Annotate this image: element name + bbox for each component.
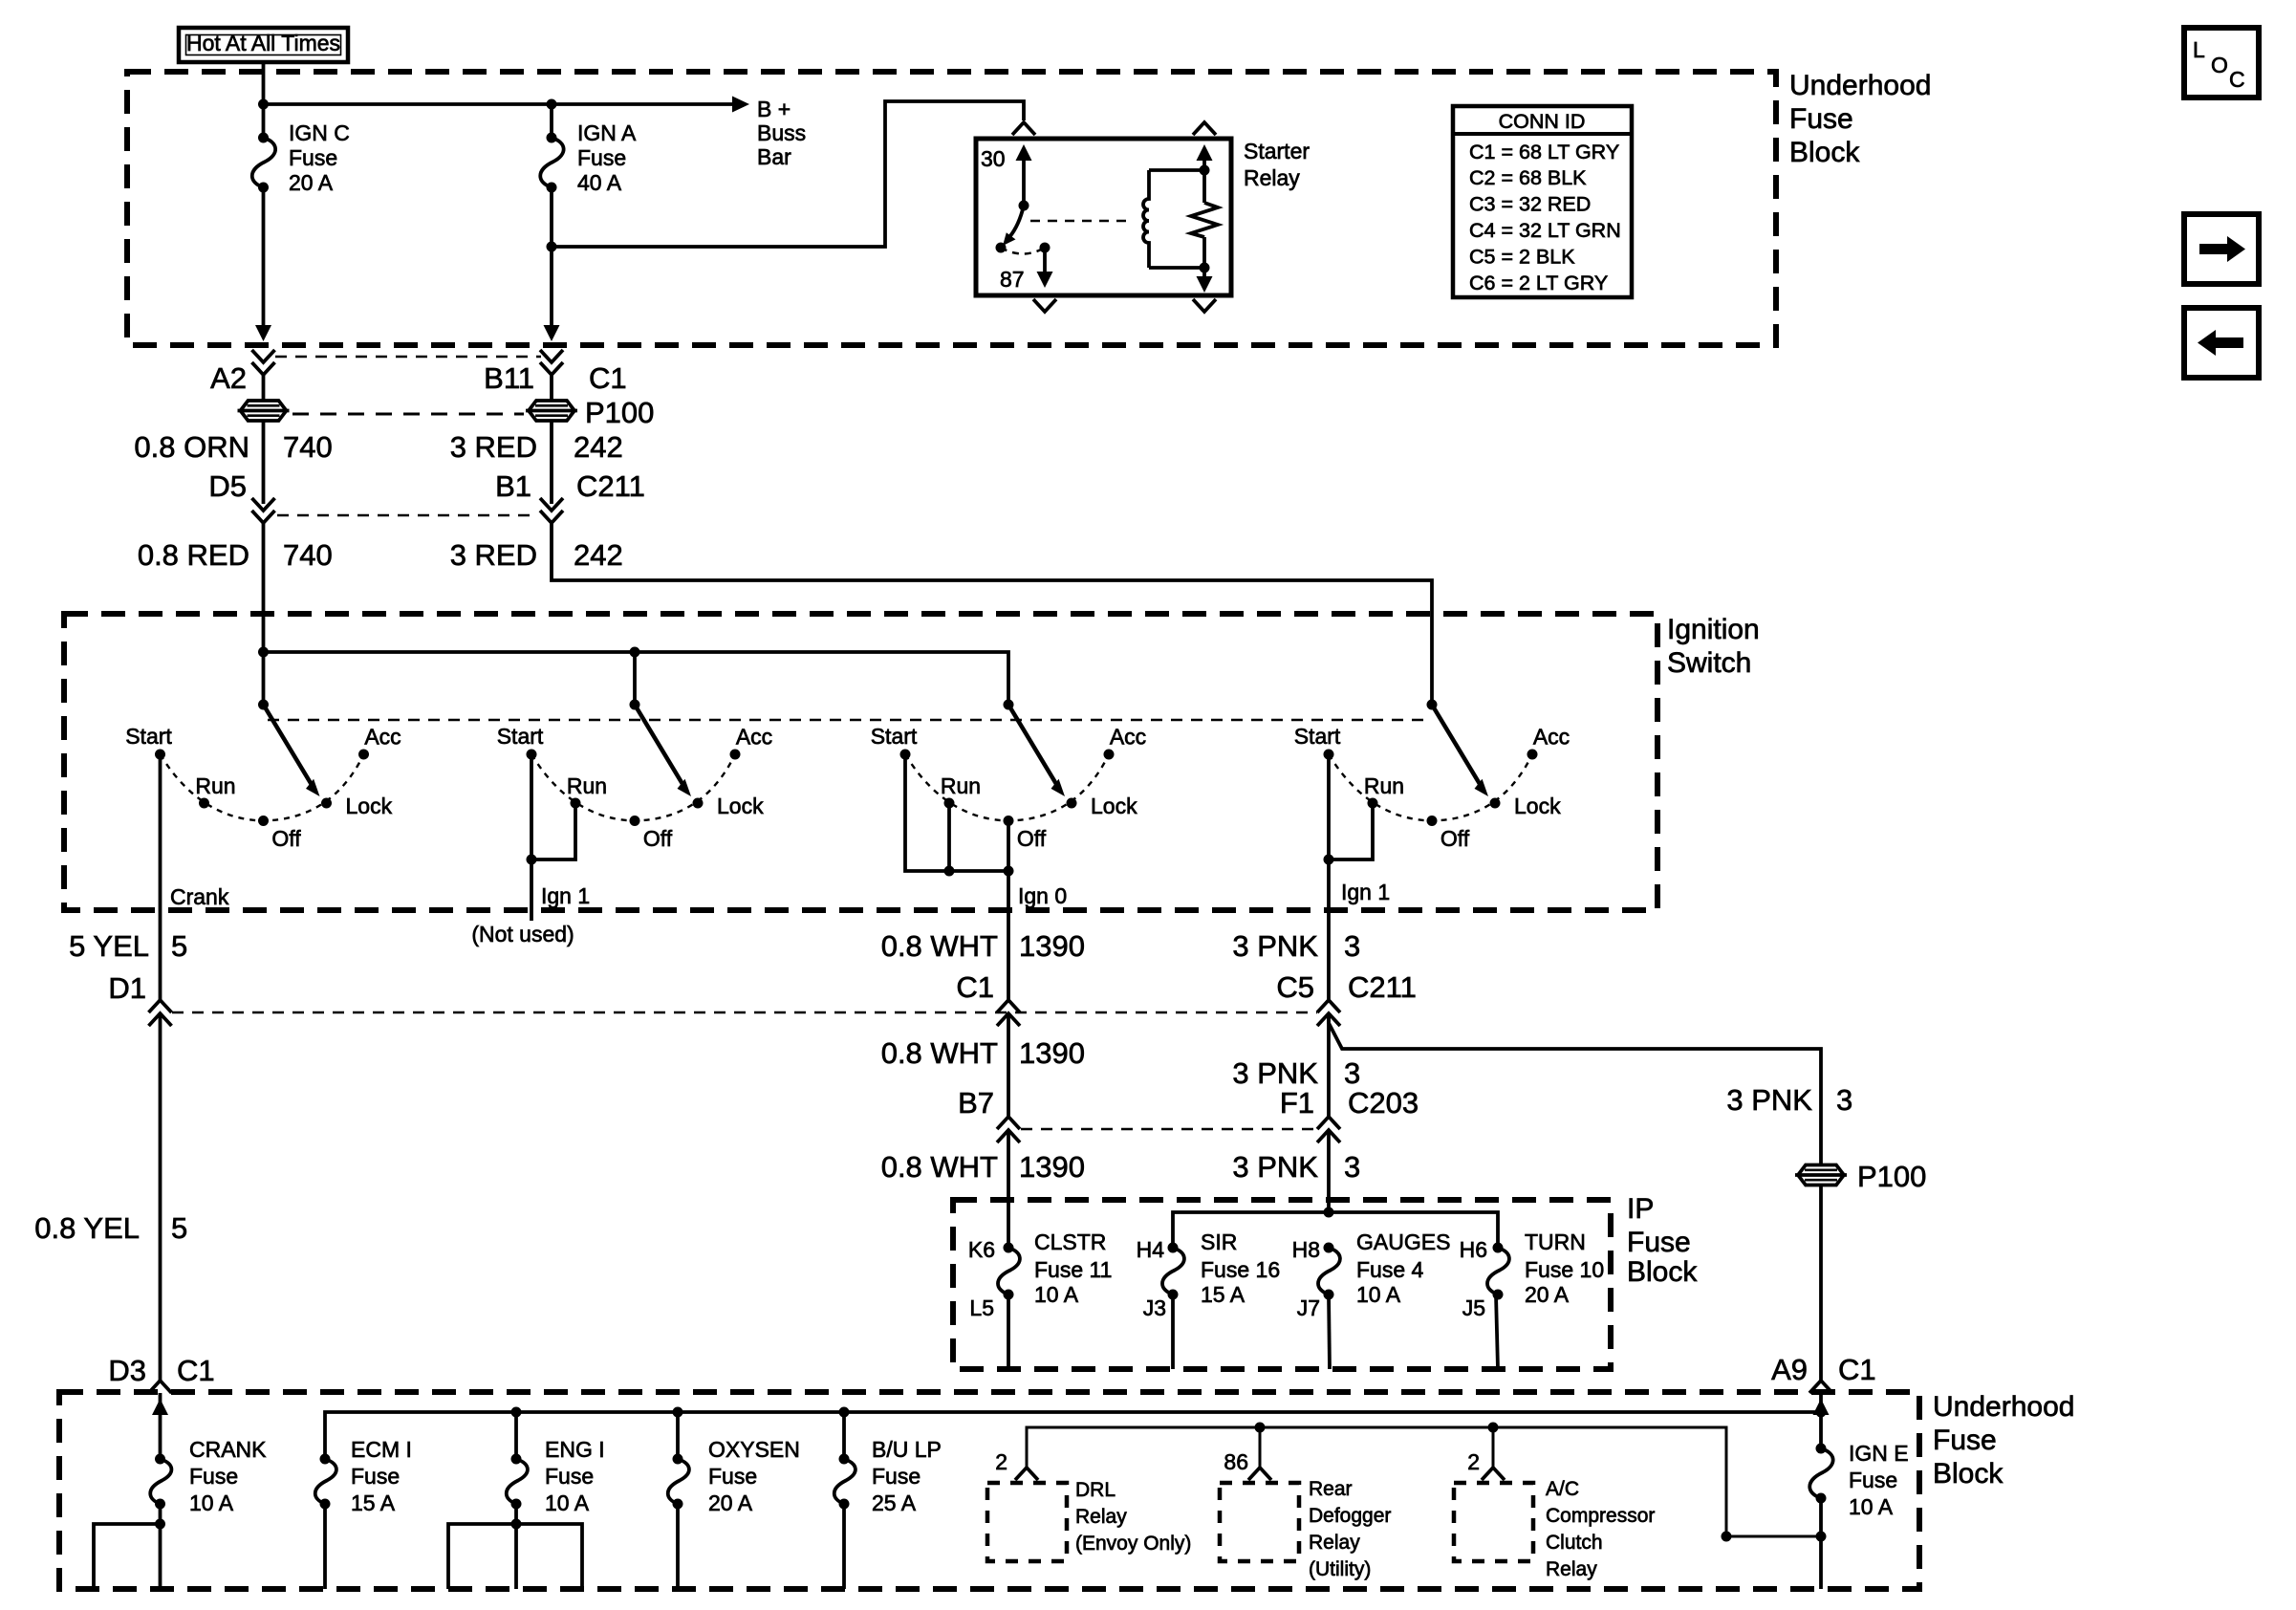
- svg-text:10 A: 10 A: [1849, 1494, 1894, 1519]
- ignition switch wafer 3 (Ign 0): [871, 700, 1146, 852]
- svg-text:Compressor: Compressor: [1546, 1505, 1655, 1527]
- svg-text:J3: J3: [1143, 1295, 1166, 1320]
- svg-text:Ignition: Ignition: [1667, 614, 1760, 645]
- label: TURN Fuse 10 20 A: [1525, 1229, 1604, 1307]
- svg-text:25 A: 25 A: [872, 1490, 917, 1515]
- svg-text:C1: C1: [177, 1354, 215, 1387]
- svg-text:3 PNK: 3 PNK: [1726, 1083, 1812, 1117]
- wire: B11 lead into connector: [550, 375, 553, 401]
- wire: B+ buss bar feed: [264, 102, 733, 106]
- connector alignment dashed line C211: [277, 514, 537, 517]
- wire: switch supply bus: [264, 652, 1009, 705]
- svg-text:Ign 0: Ign 0: [1018, 883, 1067, 908]
- wire: IGN C fuse output to connector A2: [262, 187, 266, 329]
- pin chevron A/C relay pin 2: [1482, 1468, 1505, 1480]
- fuse TURN Fuse 10 20 A: [1487, 1243, 1509, 1370]
- label: 0.8 ORN 740: [134, 430, 332, 464]
- svg-text:Underhood: Underhood: [1933, 1391, 2074, 1423]
- svg-text:3: 3: [1344, 1056, 1360, 1090]
- wire: Hot At All Times feed down to IGN C fuse: [262, 62, 266, 138]
- wire: switch 2 Start-Run tie: [527, 754, 576, 921]
- IP Fuse Block boundary: [953, 1200, 1611, 1369]
- pin chevron above starter relay pin 30: [1012, 122, 1035, 135]
- Ignition Switch boundary: [64, 614, 1657, 910]
- svg-text:(Utility): (Utility): [1309, 1558, 1371, 1580]
- svg-text:5: 5: [171, 1211, 187, 1245]
- svg-text:Fuse 10: Fuse 10: [1525, 1257, 1604, 1282]
- svg-text:C1 = 68 LT GRY: C1 = 68 LT GRY: [1469, 141, 1619, 163]
- svg-text:OXYSEN: OXYSEN: [708, 1437, 800, 1462]
- svg-text:C203: C203: [1348, 1086, 1419, 1120]
- connector alignment dashed line (A2/B11 row): [275, 356, 541, 359]
- svg-text:0.8 RED: 0.8 RED: [138, 538, 249, 572]
- svg-text:Relay: Relay: [1309, 1532, 1360, 1554]
- pin chevron below relay pin 87: [1033, 299, 1056, 312]
- label: Rear Defogger Relay (Utility): [1309, 1478, 1391, 1580]
- label: OXYSEN Fuse 20 A: [708, 1437, 800, 1515]
- svg-text:87: 87: [1000, 267, 1025, 292]
- connector alignment dashed line C203: [1021, 1128, 1317, 1131]
- ignition switch wafer 2 (Ign 1): [497, 700, 772, 852]
- label: 0.8 RED 740: [138, 538, 333, 572]
- wire: coil top to resistor column: [1149, 168, 1204, 172]
- fuse IGN C 20 A: [252, 133, 275, 193]
- svg-text:Starter: Starter: [1244, 139, 1310, 163]
- svg-text:Buss: Buss: [757, 120, 806, 145]
- svg-text:10 A: 10 A: [1034, 1282, 1079, 1307]
- wire: IGN A fuse output down to connector B11: [550, 187, 553, 329]
- svg-text:3 RED: 3 RED: [450, 538, 537, 572]
- svg-text:C6 = 2 LT GRY: C6 = 2 LT GRY: [1469, 272, 1608, 294]
- svg-text:ECM I: ECM I: [351, 1437, 412, 1462]
- node: junction IGN E supply: [1816, 1407, 1827, 1418]
- svg-text:2: 2: [1467, 1449, 1480, 1474]
- svg-text:IGN E: IGN E: [1849, 1441, 1909, 1466]
- svg-text:C5: C5: [1276, 970, 1314, 1004]
- svg-text:10 A: 10 A: [545, 1490, 590, 1515]
- pin chevron below relay coil pin: [1193, 299, 1216, 312]
- svg-text:Relay: Relay: [1075, 1506, 1127, 1528]
- Underhood Fuse Block (top) boundary: [127, 72, 1776, 345]
- svg-text:C3 = 32 RED: C3 = 32 RED: [1469, 193, 1591, 216]
- svg-text:15 A: 15 A: [351, 1490, 396, 1515]
- fuse SIR Fuse 16 15 A: [1162, 1243, 1184, 1370]
- node: junction 3 PNK on IP bus: [1324, 1207, 1334, 1218]
- svg-text:CRANK: CRANK: [189, 1437, 267, 1462]
- label: 0.8 WHT 1390 (row 2): [881, 1036, 1085, 1070]
- node: junction at B+ bus: [258, 99, 269, 110]
- svg-text:Fuse: Fuse: [872, 1464, 921, 1489]
- svg-text:B11: B11: [484, 361, 534, 395]
- wire: 0.8 WHT 1390 (row 2): [1007, 1013, 1010, 1117]
- svg-text:CLSTR: CLSTR: [1034, 1229, 1106, 1254]
- fuse IGN E 10 A: [1809, 1444, 1832, 1590]
- svg-text:ENG I: ENG I: [545, 1437, 605, 1462]
- svg-text:L: L: [2193, 37, 2205, 62]
- svg-text:10 A: 10 A: [189, 1490, 234, 1515]
- svg-text:1390: 1390: [1019, 929, 1085, 963]
- svg-text:C211: C211: [576, 469, 645, 503]
- starter relay U1 outline: [976, 139, 1231, 295]
- relay pin 87 contact: [1037, 243, 1053, 289]
- svg-text:H8: H8: [1292, 1237, 1320, 1262]
- wire: 3 RED 242 segment to switch 4: [552, 523, 1432, 705]
- label: 3 PNK 3 (row 2): [1232, 1056, 1360, 1090]
- node: junction rear defogger relay: [1255, 1423, 1266, 1433]
- connector chevrons C203 (B7): [997, 1117, 1020, 1142]
- DRL relay K1 outline: [987, 1483, 1067, 1561]
- connector P100 pass-through (B11/C1 side): [526, 401, 577, 421]
- pin chevron entering bottom fuse block (A9): [1809, 1381, 1832, 1393]
- svg-text:C2 = 68 BLK: C2 = 68 BLK: [1469, 166, 1587, 189]
- fuse OXYSEN 20 A: [668, 1412, 689, 1589]
- pin chevrons below fuse block exit B11: [540, 350, 563, 375]
- connector C211 chevrons (B1 side): [540, 498, 563, 523]
- svg-text:TURN: TURN: [1525, 1229, 1586, 1254]
- page icon: arrow left box: [2184, 308, 2259, 378]
- wire: 0.8 ORN 740 segment: [262, 421, 266, 504]
- wire: relay feed line from IGN E fuse: [1027, 1427, 1821, 1536]
- svg-text:Fuse: Fuse: [351, 1464, 400, 1489]
- svg-text:GAUGES: GAUGES: [1356, 1229, 1450, 1254]
- label: ENG I Fuse 10 A: [545, 1437, 605, 1515]
- relay actuation dashed link: [1030, 220, 1131, 223]
- svg-text:0.8 YEL: 0.8 YEL: [34, 1211, 140, 1245]
- wire: drop to A/C relay: [1492, 1427, 1495, 1468]
- label: GAUGES Fuse 4 10 A: [1356, 1229, 1450, 1307]
- svg-text:IGN C: IGN C: [289, 120, 350, 145]
- svg-text:Fuse: Fuse: [189, 1464, 238, 1489]
- wire: switch 4 Start-Run tie: [1324, 754, 1374, 1000]
- svg-text:H6: H6: [1460, 1237, 1487, 1262]
- label: Ignition Switch: [1667, 614, 1760, 679]
- connector C1 chevrons (D1): [149, 1000, 172, 1026]
- svg-text:D3: D3: [108, 1354, 146, 1387]
- svg-text:Fuse: Fuse: [1849, 1468, 1897, 1492]
- node: junction IGN A column on B+ bus: [547, 99, 557, 110]
- label: 5 YEL 5: [69, 929, 187, 963]
- svg-text:3 PNK: 3 PNK: [1232, 929, 1318, 963]
- pin chevron rear defogger pin 86: [1248, 1468, 1271, 1480]
- relay coil: [1143, 170, 1149, 268]
- svg-text:Fuse: Fuse: [1789, 103, 1853, 135]
- svg-text:D5: D5: [208, 469, 247, 503]
- pin chevron DRL relay pin 2: [1015, 1468, 1038, 1480]
- wire: branch to starter relay pin 30: [552, 101, 1024, 247]
- connector P100 pass-through (A2 side): [238, 401, 290, 421]
- svg-text:40 A: 40 A: [577, 170, 622, 195]
- label: 3 RED 242 (lower): [450, 538, 623, 572]
- svg-text:Block: Block: [1933, 1458, 2004, 1490]
- svg-text:0.8 WHT: 0.8 WHT: [881, 1150, 998, 1184]
- svg-text:3 PNK: 3 PNK: [1232, 1056, 1318, 1090]
- svg-text:Fuse: Fuse: [708, 1464, 757, 1489]
- wire: switch 3 Start-Run-Off tie: [905, 754, 1014, 1000]
- svg-text:C5 = 2 BLK: C5 = 2 BLK: [1469, 246, 1575, 269]
- svg-text:C211: C211: [1348, 970, 1417, 1004]
- relay switch blade 30 to 87: [996, 206, 1025, 253]
- svg-text:DRL: DRL: [1075, 1479, 1116, 1501]
- svg-text:L5: L5: [969, 1295, 994, 1320]
- wire: A2 lead into connector: [262, 375, 266, 401]
- wire: IGN A fuse feed: [550, 104, 553, 138]
- svg-text:20 A: 20 A: [1525, 1282, 1570, 1307]
- fuse CLSTR Fuse 11 10 A: [998, 1243, 1020, 1370]
- wire: CRANK fuse feed with direction arrow: [152, 1393, 168, 1459]
- svg-text:(Not used): (Not used): [471, 922, 574, 946]
- svg-text:Block: Block: [1627, 1256, 1698, 1288]
- svg-text:(Envoy Only): (Envoy Only): [1075, 1533, 1191, 1555]
- svg-text:5: 5: [171, 929, 187, 963]
- label: DRL Relay (Envoy Only): [1075, 1479, 1191, 1555]
- svg-text:0.8 WHT: 0.8 WHT: [881, 1036, 998, 1070]
- power tag: Hot At All Times: [179, 28, 348, 62]
- svg-text:3 RED: 3 RED: [450, 430, 537, 464]
- svg-text:20 A: 20 A: [289, 170, 334, 195]
- svg-text:3: 3: [1344, 1150, 1360, 1184]
- svg-text:30: 30: [981, 146, 1006, 171]
- label: ECM I Fuse 15 A: [351, 1437, 412, 1515]
- svg-text:B1: B1: [495, 469, 531, 503]
- wire: Crank output from Start contact: [159, 754, 162, 1000]
- wire: 0.8 YEL 5 long segment: [159, 1013, 162, 1381]
- fuse B/U LP 25 A: [834, 1412, 856, 1589]
- fuse ENG I 10 A: [448, 1412, 582, 1589]
- svg-text:Crank: Crank: [170, 884, 229, 909]
- wire: drop to switch 2 pivot: [633, 652, 637, 705]
- svg-text:K6: K6: [968, 1237, 995, 1262]
- svg-text:C4 = 32 LT GRN: C4 = 32 LT GRN: [1469, 219, 1621, 242]
- svg-text:F1: F1: [1280, 1086, 1314, 1120]
- label: CLSTR Fuse 11 10 A: [1034, 1229, 1112, 1307]
- ignition switch wafer 1 (Crank): [125, 700, 401, 852]
- wire: IGN E feed with direction arrow: [1813, 1393, 1830, 1449]
- svg-text:D1: D1: [108, 971, 146, 1005]
- label: CRANK Fuse 10 A: [189, 1437, 267, 1515]
- svg-text:P100: P100: [585, 396, 654, 429]
- svg-text:Switch: Switch: [1667, 647, 1751, 679]
- Rear Defogger relay K2 outline: [1220, 1483, 1299, 1561]
- svg-text:C1: C1: [589, 361, 627, 395]
- label: IGN A Fuse 40 A: [577, 120, 637, 195]
- relay contact travel dashed arc: [1001, 248, 1045, 254]
- page icon: arrow right box: [2184, 214, 2259, 284]
- label: IP Fuse Block: [1627, 1193, 1698, 1288]
- label: 3 RED 242: [450, 430, 623, 464]
- connector chevrons C211 (C5): [1317, 1000, 1340, 1026]
- wire: CRANK fuse output: [94, 1504, 165, 1589]
- relay pin 30 contact arm: [1016, 144, 1032, 211]
- svg-text:Block: Block: [1789, 137, 1860, 168]
- wire: 3 RED 242 segment: [550, 421, 553, 504]
- node: junction OXYSEN: [673, 1407, 683, 1418]
- pin chevron entering bottom fuse block (D3): [149, 1381, 172, 1393]
- svg-text:Fuse: Fuse: [289, 145, 337, 170]
- ganged switch dashed link line: [268, 719, 1427, 722]
- svg-text:B +: B +: [757, 97, 791, 121]
- svg-text:Fuse 11: Fuse 11: [1034, 1257, 1112, 1282]
- svg-text:C: C: [2229, 67, 2245, 92]
- svg-text:Ign 1: Ign 1: [1341, 880, 1390, 904]
- node: junction A/C relay: [1488, 1423, 1499, 1433]
- svg-text:Ign 1: Ign 1: [541, 883, 590, 908]
- svg-text:2: 2: [995, 1449, 1007, 1474]
- connector alignment dashed line C1/C211 row: [172, 1012, 1317, 1014]
- fuse ECM I 15 A: [315, 1454, 336, 1590]
- svg-text:SIR: SIR: [1201, 1229, 1237, 1254]
- node: junction switch 2 feed: [630, 647, 640, 658]
- svg-text:B/U LP: B/U LP: [872, 1437, 942, 1462]
- svg-text:Defogger: Defogger: [1309, 1505, 1391, 1527]
- connector alignment dashed line: [292, 413, 524, 416]
- svg-text:3: 3: [1344, 929, 1360, 963]
- svg-text:P100: P100: [1857, 1160, 1926, 1193]
- svg-text:Rear: Rear: [1309, 1478, 1353, 1500]
- node: junction starter relay branch: [547, 242, 557, 252]
- label: Starter Relay: [1244, 139, 1310, 190]
- ignition switch wafer 4 (Ign 1): [1294, 700, 1570, 852]
- pin chevron above relay coil pin: [1193, 122, 1216, 135]
- wire: 0.8 RED 740 segment down into ignition switch: [262, 523, 266, 705]
- label: Underhood Fuse Block (top): [1789, 70, 1931, 168]
- page icon: LOC box: [2184, 28, 2259, 98]
- svg-text:Clutch: Clutch: [1546, 1532, 1603, 1554]
- wire: 3 PNK branch to P100: [1329, 1013, 1821, 1164]
- fuse IGN A 40 A: [540, 133, 563, 193]
- svg-text:Fuse: Fuse: [1933, 1425, 1997, 1456]
- wire: coil bottom to resistor column: [1149, 266, 1204, 270]
- svg-text:0.8 WHT: 0.8 WHT: [881, 929, 998, 963]
- svg-text:1390: 1390: [1019, 1150, 1085, 1184]
- label: 0.8 WHT 1390 (row 3): [881, 1150, 1085, 1184]
- wire: IP internal bus: [1173, 1212, 1498, 1248]
- label: 3 PNK 3 (P100 branch): [1726, 1083, 1852, 1117]
- label: 3 PNK 3 (row 3): [1232, 1150, 1360, 1184]
- svg-text:740: 740: [283, 430, 333, 464]
- connector chevrons C203 (F1): [1317, 1117, 1340, 1142]
- svg-text:Fuse: Fuse: [1627, 1227, 1691, 1258]
- node: junction relay feed at IGN E output: [1722, 1532, 1732, 1542]
- svg-text:20 A: 20 A: [708, 1490, 753, 1515]
- wire: 3 PNK 3 (row 3) into IP fuse block: [1327, 1130, 1331, 1212]
- svg-text:C1: C1: [956, 970, 994, 1004]
- node: junction B/U LP: [839, 1407, 850, 1418]
- relay suppression resistor: [1191, 144, 1218, 293]
- svg-text:Underhood: Underhood: [1789, 70, 1931, 101]
- svg-text:Relay: Relay: [1546, 1558, 1597, 1580]
- svg-text:Fuse 16: Fuse 16: [1201, 1257, 1280, 1282]
- wire: 0.8 WHT 1390 (row 3) into IP fuse block: [1007, 1130, 1010, 1248]
- svg-text:IGN A: IGN A: [577, 120, 637, 145]
- svg-text:O: O: [2211, 53, 2228, 77]
- fuse GAUGES Fuse 4 10 A: [1318, 1243, 1340, 1370]
- label: IGN C Fuse 20 A: [289, 120, 350, 195]
- label: B/U LP Fuse 25 A: [872, 1437, 942, 1515]
- svg-text:Fuse: Fuse: [545, 1464, 594, 1489]
- svg-text:C1: C1: [1838, 1353, 1876, 1386]
- label: SIR Fuse 16 15 A: [1201, 1229, 1280, 1307]
- svg-text:86: 86: [1224, 1449, 1248, 1474]
- svg-text:B7: B7: [958, 1086, 994, 1120]
- wire: drop to rear defogger relay: [1259, 1427, 1262, 1468]
- svg-text:A/C: A/C: [1546, 1478, 1579, 1500]
- svg-text:Fuse 4: Fuse 4: [1356, 1257, 1424, 1282]
- svg-text:1390: 1390: [1019, 1036, 1085, 1070]
- svg-text:242: 242: [574, 538, 623, 572]
- connector C211 chevrons (D5 side): [252, 498, 275, 523]
- connector P100 (lower): [1795, 1165, 1847, 1186]
- svg-text:740: 740: [283, 538, 333, 572]
- svg-text:A9: A9: [1771, 1353, 1808, 1386]
- svg-text:Hot At All Times: Hot At All Times: [186, 31, 340, 55]
- svg-text:Relay: Relay: [1244, 165, 1300, 190]
- svg-text:Fuse: Fuse: [577, 145, 626, 170]
- label: Underhood Fuse Block (bottom): [1933, 1391, 2074, 1490]
- connector chevrons C1 (0.8 WHT): [997, 1000, 1020, 1026]
- label: IGN E Fuse 10 A: [1849, 1441, 1909, 1519]
- node: junction switch 1 feed: [258, 647, 269, 658]
- svg-text:10 A: 10 A: [1356, 1282, 1401, 1307]
- node: junction ENG I: [511, 1407, 522, 1418]
- label: 0.8 WHT 1390 (row 1): [881, 929, 1085, 963]
- label: A/C Compressor Clutch Relay: [1546, 1478, 1655, 1580]
- wire: bottom block supply bus: [325, 1412, 1821, 1459]
- label: B+ Buss Bar: [757, 97, 806, 169]
- svg-text:15 A: 15 A: [1201, 1282, 1245, 1307]
- label: 3 PNK 3 (row 1): [1232, 929, 1360, 963]
- svg-text:J7: J7: [1297, 1295, 1320, 1320]
- svg-text:IP: IP: [1627, 1193, 1654, 1225]
- wire: 3 PNK 3 (row 2): [1327, 1013, 1331, 1117]
- svg-text:3 PNK: 3 PNK: [1232, 1150, 1318, 1184]
- svg-text:5 YEL: 5 YEL: [69, 929, 149, 963]
- wire: 3 PNK to IGN E (A9): [1819, 1186, 1823, 1381]
- label: 0.8 YEL 5: [34, 1211, 187, 1245]
- svg-text:A2: A2: [210, 361, 247, 395]
- svg-text:J5: J5: [1462, 1295, 1485, 1320]
- svg-text:3: 3: [1836, 1083, 1852, 1117]
- pin chevrons below fuse block exit A2: [252, 350, 275, 375]
- fuse CRANK 10 A: [150, 1454, 171, 1510]
- svg-text:242: 242: [574, 430, 623, 464]
- svg-text:H4: H4: [1137, 1237, 1165, 1262]
- svg-text:Bar: Bar: [757, 144, 791, 169]
- svg-text:CONN ID: CONN ID: [1499, 110, 1586, 133]
- svg-text:0.8 ORN: 0.8 ORN: [134, 430, 249, 464]
- CONN ID table: [1453, 106, 1632, 297]
- A/C Compressor Clutch relay K3 outline: [1454, 1483, 1533, 1561]
- Underhood Fuse Block (bottom) boundary: [59, 1392, 1919, 1589]
